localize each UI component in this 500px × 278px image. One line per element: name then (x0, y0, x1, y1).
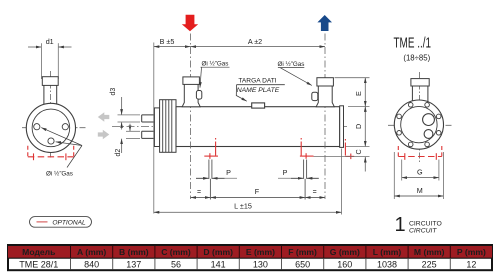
left view red optional bracket (28, 146, 74, 160)
svg-text:=: = (197, 189, 201, 196)
svg-text:P (mm): P (mm) (457, 247, 486, 257)
dimension E (364, 78, 366, 107)
svg-text:130: 130 (253, 259, 268, 269)
svg-text:OPTIONAL: OPTIONAL (52, 220, 86, 227)
svg-text:840: 840 (84, 259, 99, 269)
table column dividers data (71, 259, 451, 270)
svg-text:137: 137 (126, 259, 141, 269)
right view outer circle (394, 100, 443, 149)
svg-text:d1: d1 (46, 37, 54, 46)
svg-text:141: 141 (211, 259, 226, 269)
right view stub cap (411, 79, 429, 86)
left top stub cap (183, 77, 200, 85)
svg-text:TME ../1: TME ../1 (394, 35, 432, 51)
svg-text:B (mm): B (mm) (119, 247, 149, 257)
shell right end cap (340, 106, 344, 148)
dimension M (394, 195, 443, 197)
svg-text:M: M (417, 186, 423, 195)
dimension d1 extension lines (41, 43, 58, 79)
left view inner circle (32, 109, 70, 147)
right top stub plug knob (312, 92, 318, 100)
table outer border (8, 245, 492, 270)
svg-text:B ±5: B ±5 (160, 37, 175, 46)
right view vertical centerline (419, 72, 421, 162)
tube sheet plate (154, 108, 159, 147)
right top stub cap (317, 78, 334, 86)
gas label right stub (278, 60, 312, 86)
dimension C (364, 157, 366, 172)
red inlet arrow (182, 15, 198, 31)
table header/data divider (7, 257, 492, 259)
svg-text:A (mm): A (mm) (77, 247, 106, 257)
right view port hole large (423, 114, 435, 126)
left stub centerline (190, 34, 192, 200)
svg-text:d2: d2 (115, 149, 122, 157)
right view red optional bracket (398, 146, 442, 160)
dimension A line (191, 46, 326, 48)
dimension P left (196, 177, 237, 179)
side pipe upper (142, 115, 155, 122)
dimension G extension lines (402, 160, 439, 181)
optional pill (30, 217, 92, 228)
right view stub body (412, 86, 428, 102)
shell cylinder (176, 107, 340, 147)
svg-text:1: 1 (394, 214, 405, 236)
red drain shell end (345, 139, 354, 159)
svg-text:L ±15: L ±15 (234, 202, 252, 211)
EDC extension lines (314, 78, 370, 157)
svg-text:1038: 1038 (377, 259, 397, 269)
svg-text:d3: d3 (110, 88, 117, 96)
svg-text:56: 56 (171, 259, 181, 269)
svg-text:NAME PLATE: NAME PLATE (237, 87, 280, 94)
left view leader lines to holes (41, 128, 82, 168)
side pipe extension lines (118, 115, 141, 138)
flow arrow gray right (98, 130, 110, 139)
left view stub body (44, 85, 57, 105)
svg-text:TARGA DATI: TARGA DATI (238, 78, 276, 85)
gas label left stub (200, 59, 230, 87)
svg-text:C: C (354, 149, 363, 154)
dimension d1 label (46, 37, 54, 46)
table column dividers header (71, 246, 451, 259)
drain extension line pair right (304, 160, 307, 200)
left view hole bottom (48, 138, 54, 144)
svg-text:G: G (417, 168, 423, 177)
svg-text:D: D (354, 124, 363, 129)
svg-text:=: = (313, 189, 317, 196)
left view horizontal centerline (22, 127, 87, 129)
svg-text:(18÷85): (18÷85) (403, 53, 430, 62)
svg-text:Модель: Модель (22, 247, 55, 257)
right view port hole small (424, 130, 433, 139)
svg-text:C (mm): C (mm) (161, 247, 191, 257)
red drain right (300, 138, 314, 159)
svg-text:225: 225 (422, 259, 437, 269)
right stub centerline (324, 34, 326, 200)
dimension L line (154, 211, 342, 213)
svg-text:E (mm): E (mm) (246, 247, 275, 257)
dimension M extension lines (394, 152, 443, 199)
svg-text:D (mm): D (mm) (203, 247, 233, 257)
table header texts (22, 247, 486, 257)
svg-text:12: 12 (466, 259, 476, 269)
left view stub cap (42, 77, 58, 86)
blue outlet arrow (317, 15, 332, 31)
dimension L extension right (341, 149, 343, 215)
dimension P right (278, 177, 319, 179)
left view vertical centerline (50, 71, 52, 159)
table data texts (19, 259, 476, 269)
body left end extension centerline (153, 43, 155, 214)
flow arrow gray left (98, 112, 110, 121)
svg-text:Øi ½”Gas: Øi ½”Gas (202, 59, 229, 67)
drain extension line pair left (209, 160, 212, 200)
dimension d2 (122, 124, 130, 153)
svg-text:F (mm): F (mm) (288, 247, 317, 257)
flange stack (160, 100, 176, 153)
dimension d3 (121, 97, 123, 130)
left top stub plug knob (196, 91, 201, 100)
svg-text:TME 28/1: TME 28/1 (19, 259, 58, 269)
left top stub body (182, 84, 200, 106)
right view inner circle (401, 106, 437, 142)
svg-text:CIRCUIT: CIRCUIT (409, 227, 437, 234)
svg-text:G (mm): G (mm) (330, 247, 360, 257)
flange stack plates (163, 100, 172, 153)
dimension D (364, 106, 366, 146)
targa dati label (236, 78, 284, 102)
right top stub body (316, 86, 334, 107)
left view hole left (34, 124, 40, 130)
svg-text:A ±2: A ±2 (248, 37, 262, 46)
dimension G (402, 177, 439, 179)
side pipe lower (142, 131, 155, 138)
red drain left (204, 138, 218, 159)
svg-text:L (mm): L (mm) (373, 247, 402, 257)
main centerline (112, 126, 347, 128)
svg-text:650: 650 (295, 259, 310, 269)
name plate rectangle (252, 103, 265, 108)
right view horizontal centerline (388, 124, 452, 126)
dimension B line (154, 46, 191, 48)
svg-text:Øi ½”Gas: Øi ½”Gas (46, 170, 73, 178)
svg-text:Øi ½”Gas: Øi ½”Gas (278, 60, 305, 68)
left view hole right (62, 124, 68, 130)
svg-text:M (mm): M (mm) (414, 247, 445, 257)
svg-text:P: P (283, 168, 288, 177)
svg-text:160: 160 (337, 259, 352, 269)
dimension = F = line (191, 197, 326, 199)
dimension d1 arrows (28, 46, 72, 48)
right view bolt holes (397, 103, 441, 147)
table header background (8, 246, 492, 258)
left view outer circle (26, 103, 75, 152)
svg-text:E: E (354, 91, 363, 96)
svg-text:P: P (226, 168, 231, 177)
svg-text:F: F (255, 187, 260, 196)
